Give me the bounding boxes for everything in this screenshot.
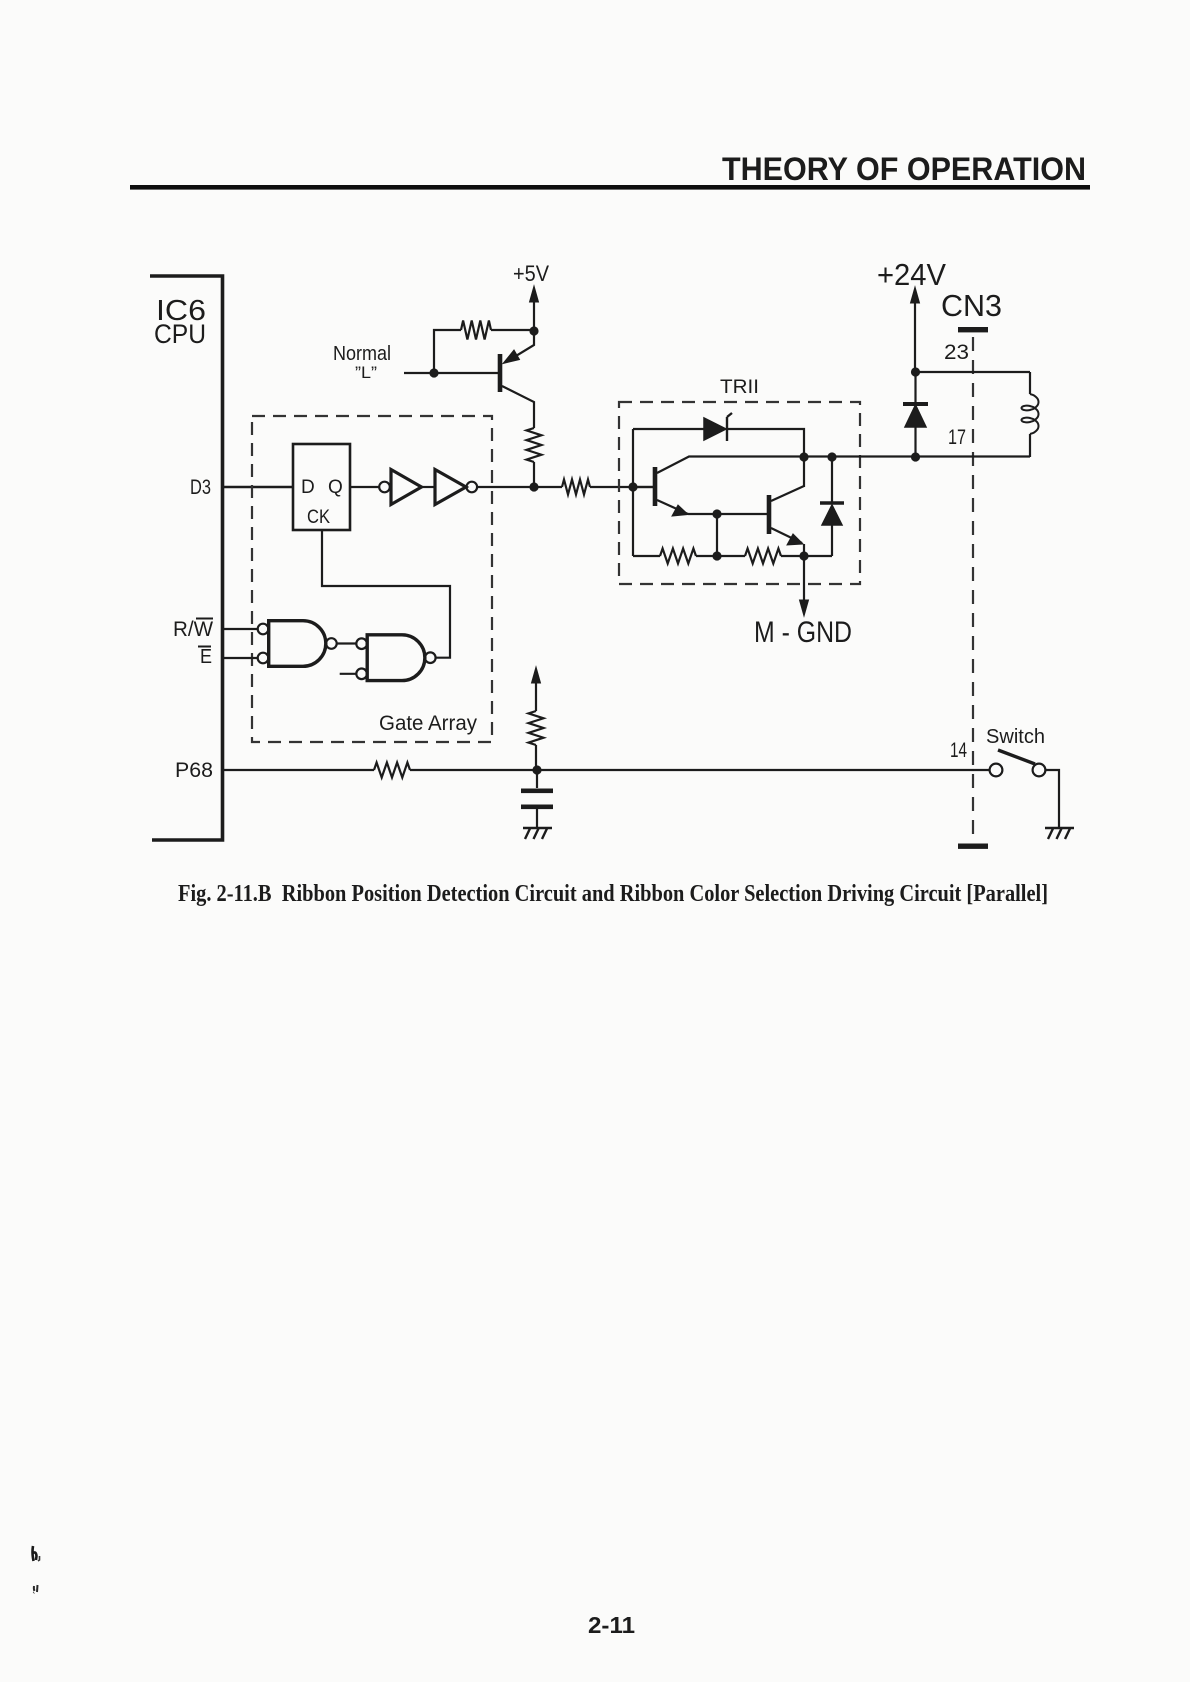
NAND gate G2 [367, 635, 425, 681]
node junction at +5V feed [529, 326, 538, 335]
node junction M-GND [799, 551, 808, 560]
connector CN3 top bar [958, 327, 988, 332]
wire 23 row [916, 371, 1031, 373]
power +24V arrow [911, 287, 920, 303]
Gate Array dashed box [252, 416, 492, 742]
capacitor C1 [536, 770, 538, 788]
svg-text:Fig. 2-11.B Ribbon Position D: Fig. 2-11.B Ribbon Position Detection Ci… [178, 881, 1048, 907]
svg-text:R/W: R/W [173, 618, 213, 641]
node junction base [429, 368, 438, 377]
resistor R-base (feedback) [461, 321, 491, 340]
svg-text:Normal: Normal [333, 343, 391, 365]
node junction bottom row [712, 551, 721, 560]
svg-text:D3: D3 [190, 476, 211, 499]
resistor R-P68 [374, 763, 410, 778]
transistor Q2 emitter with arrow [657, 500, 688, 514]
svg-text:17: 17 [948, 426, 966, 449]
inverter bubble A2 output [467, 482, 478, 493]
svg-text:CPU: CPU [154, 319, 206, 349]
switch S1 blade [998, 750, 1035, 764]
stray scan mark 2 [34, 1585, 38, 1593]
transistor Q1 emitter with arrow into bar [506, 331, 534, 362]
transistor Q1 (PNP) bar [498, 354, 503, 392]
svg-text:”L”: ”L” [355, 363, 377, 382]
transistor Q3 collector [771, 486, 804, 501]
connector CN3 bottom bar [958, 844, 988, 849]
wire feedback left [434, 330, 461, 373]
svg-text:CN3: CN3 [941, 288, 1002, 323]
connector CN3 dashed line [972, 337, 974, 843]
wire R/W to NAND1 [223, 628, 258, 630]
switch S1 contacts [990, 764, 1003, 777]
svg-text:E: E [200, 646, 212, 668]
svg-text:TRII: TRII [720, 377, 759, 398]
diode D1 (across top) [704, 418, 726, 440]
svg-text:2-11: 2-11 [588, 1612, 635, 1638]
resistor R-pullup vertical [529, 711, 544, 745]
node junction D3/R [529, 482, 538, 491]
IC block IC6 CPU bracket [150, 276, 223, 840]
wire TR11 top to diode [633, 428, 704, 430]
node junction 17 row [911, 452, 920, 461]
node junctions output row [799, 452, 808, 461]
title underline rule [130, 185, 1090, 190]
wire +5V node to resistor [491, 329, 534, 331]
wire A1 to A2 [422, 486, 436, 488]
wire emitter row [688, 513, 767, 515]
svg-text:+5V: +5V [513, 261, 549, 286]
transistor Q3 emitter with arrow [771, 528, 802, 543]
svg-text:M - GND: M - GND [754, 616, 852, 649]
wire switch to ground [1045, 770, 1059, 828]
svg-text:Q: Q [328, 477, 343, 498]
wire A2 output to node [477, 486, 562, 488]
NAND2 lower input stub [340, 673, 357, 675]
stray scan mark 1 [33, 1546, 37, 1561]
NAND2 output bubble [425, 652, 436, 663]
NAND1 output bubble [326, 638, 337, 649]
svg-text:CK: CK [307, 507, 330, 528]
pull-up arrow (+5V) [532, 667, 541, 683]
M-GND arrow [803, 556, 805, 603]
node junction P68/C [532, 765, 541, 774]
inductor L1 (ribbon solenoid) [1029, 372, 1031, 394]
inverter bubble A1 input [379, 482, 390, 493]
TR11 dashed box [619, 402, 860, 584]
transistor Q3 bar [767, 495, 772, 534]
node junction emitter row [712, 509, 721, 518]
wire emitter row to bottom row [716, 514, 718, 556]
svg-text:Switch: Switch [986, 726, 1045, 748]
resistor R-TR11 left [660, 549, 696, 564]
wire diode to right vertical [727, 429, 804, 487]
svg-text:P68: P68 [175, 759, 213, 782]
ground (signal) under C1 [523, 827, 552, 830]
node junction +24V [911, 367, 920, 376]
svg-text:Gate Array: Gate Array [379, 712, 477, 735]
wire D3 to flip-flop [223, 486, 293, 488]
wire resistor to D3 node [533, 462, 535, 487]
svg-text:23: 23 [944, 341, 969, 364]
wire G1 to G2 [337, 642, 357, 644]
svg-text:THEORY OF OPERATION: THEORY OF OPERATION [722, 151, 1086, 187]
wire P68 to switch [410, 769, 990, 771]
resistor R-series D3 line [562, 480, 590, 495]
diode D3 (under +24V) [914, 372, 916, 404]
svg-text:D: D [301, 477, 315, 498]
flip-flop U1 box [293, 444, 350, 530]
diode D2 (flyback inside TR11) [831, 457, 833, 503]
wire output row to CN3 [804, 455, 916, 457]
node junction TR11 input [628, 482, 637, 491]
buffer A1 [391, 470, 422, 505]
wire NAND2 output to CK [322, 530, 450, 658]
svg-text:14: 14 [950, 739, 967, 762]
NAND2 input bubbles [356, 638, 367, 649]
wire resistor to TR11 [590, 486, 653, 488]
wire 17 row [916, 455, 1030, 457]
wire base Q2 [633, 486, 653, 488]
bottom row wire [633, 555, 660, 557]
resistor R-TR11 right [745, 549, 781, 564]
svg-text:+24V: +24V [877, 257, 946, 292]
wire base from Normal L [404, 372, 498, 374]
transistor Q1 collector [502, 386, 534, 428]
wire E to NAND1 [223, 657, 258, 659]
transistor Q2 bar [653, 467, 658, 506]
buffer A2 [435, 470, 466, 505]
wire TR11 left vertical [632, 429, 634, 556]
wire Q output [350, 486, 379, 488]
NAND gate G1 [269, 621, 326, 667]
NAND1 input bubbles [258, 624, 269, 635]
transistor Q2 collector [657, 457, 804, 474]
power +5V arrow [530, 286, 539, 302]
ground (switch) [1045, 827, 1074, 830]
resistor R-collector vertical [527, 428, 542, 462]
wire P68 left [223, 769, 374, 771]
